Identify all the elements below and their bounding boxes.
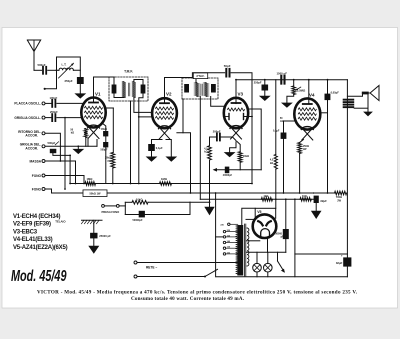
diode plate right V3 (243, 114, 245, 120)
tube V2 grids (156, 107, 174, 110)
wire speaker to ground (367, 94, 369, 111)
svg-text:250pF: 250pF (254, 81, 262, 85)
svg-text:V1: V1 (95, 91, 101, 96)
wire C2 to ground (79, 84, 81, 93)
junction dots on rails (83, 183, 85, 185)
wire chain down (112, 108, 114, 153)
tube V4 cathode (301, 127, 313, 130)
resistor 150 Ohm cathode (300, 140, 304, 143)
svg-text:VICTOR - Mod. 45/49 - Media fr: VICTOR - Mod. 45/49 - Media frequenza a … (37, 290, 358, 296)
IFT2 primary coil (195, 83, 199, 97)
tube V4 envelope (294, 98, 320, 129)
svg-text:MASSA: MASSA (29, 159, 41, 163)
terminal RITORNO DEL. ACCOR. (42, 132, 45, 135)
wire feedback tap (192, 73, 224, 78)
svg-text:V3-EBC3: V3-EBC3 (13, 229, 38, 235)
capacitor 50000pF presa (125, 214, 139, 216)
svg-text:V4-EL41(EL33): V4-EL41(EL33) (13, 237, 53, 243)
svg-text:kΩ: kΩ (71, 132, 74, 135)
V5 filament arch (261, 229, 270, 238)
wire presa to network (119, 205, 125, 207)
svg-text:V5-AZ41(EZ2A)(6X5): V5-AZ41(EZ2A)(6X5) (13, 245, 68, 251)
svg-text:250pF: 250pF (65, 79, 73, 83)
wire T1 to C3 (45, 102, 51, 104)
svg-text:FONO: FONO (32, 174, 42, 178)
lamp stems (256, 252, 258, 263)
diode plate left V3 (228, 114, 230, 120)
svg-text:Consumo totale 40 watt. Corren: Consumo totale 40 watt. Corrente totale … (131, 296, 245, 302)
svg-text:10kΩ: 10kΩ (243, 155, 249, 158)
svg-text:1MΩ: 1MΩ (161, 177, 168, 181)
svg-text:25000 pF: 25000 pF (99, 234, 111, 238)
svg-text:TELAIO: TELAIO (55, 219, 66, 223)
wire network to ground arrow (190, 201, 210, 203)
terminal GRIGLIA OSCILL. (42, 116, 45, 119)
wire V2 cathode to ground (166, 140, 171, 157)
wire oscillator return vertical (64, 118, 66, 189)
rectifier V5 envelope (253, 214, 277, 238)
svg-text:250pF: 250pF (50, 110, 58, 114)
wire choke bottom to ground (354, 107, 368, 109)
svg-text:20000pF: 20000pF (223, 175, 233, 177)
wire T6 to AVC rail (45, 176, 84, 184)
tube V3 anode bar (232, 102, 241, 104)
wire T3 down to massa row (45, 133, 60, 161)
wire antenna to C1 (34, 69, 42, 71)
svg-text:Mod. 45/49: Mod. 45/49 (11, 268, 67, 285)
IFT2 capacitor primary (184, 84, 189, 93)
capacitor 200pF diode filter (210, 136, 216, 138)
svg-text:1500 pF: 1500 pF (277, 71, 288, 75)
tube V4 anode bar (303, 103, 312, 105)
svg-text:FONO: FONO (32, 187, 42, 191)
wire junction to aerial terminal (46, 70, 57, 89)
capacitor 50pF feedback (225, 69, 227, 77)
wire IFT1 primary down (130, 101, 132, 184)
wire IFT2 secondary to V3 (211, 97, 225, 107)
mains voltage tap 230 (228, 223, 230, 225)
wire heater to V5 left (246, 218, 253, 220)
antenna (27, 40, 40, 52)
wire IFT1 secondary to V2 grid (134, 98, 152, 113)
svg-text:PRESA FONO: PRESA FONO (102, 210, 120, 214)
wire diode load wiper row (216, 169, 261, 171)
capacitor 500pF padding (50, 149, 57, 153)
svg-text:50000pF: 50000pF (133, 219, 143, 222)
svg-text:0,5MΩ: 0,5MΩ (297, 88, 306, 92)
V5 anode left (258, 221, 263, 225)
svg-text:500pF: 500pF (48, 141, 56, 145)
terminal RETE A (134, 261, 137, 264)
svg-text:GRIGLIA OSCILL.: GRIGLIA OSCILL. (14, 116, 41, 120)
terminal GRIGLIA DEL. ACCOR. (42, 145, 45, 148)
terminal MASSA (42, 160, 45, 163)
wire heater drop arrow (277, 252, 279, 261)
svg-text:ACCOR.: ACCOR. (25, 146, 38, 150)
wire B plus vertical through choke (346, 80, 348, 277)
wire AF row / B plus line (236, 79, 347, 81)
capacitor 20000pF AF coupling (225, 167, 230, 174)
power transformer winding primary (238, 225, 243, 276)
power transformer secondary bumps (247, 228, 249, 266)
wire B+ rail (200, 198, 314, 200)
capacitor cathode bypass (152, 140, 163, 145)
volume potentiometer 0.5M (293, 79, 295, 81)
capacitor 500pF antenna series (42, 67, 44, 74)
wire V1 grid2 to chain (106, 107, 114, 109)
svg-text:V2-EF9 (EF39): V2-EF9 (EF39) (13, 222, 51, 228)
wire T7 to return rail (45, 189, 70, 193)
svg-text:1W: 1W (303, 147, 307, 151)
dial lamp 2 (264, 263, 273, 272)
capacitor 100pF (51, 100, 53, 107)
wire lower B rail (295, 253, 348, 255)
wire 20k to rail (112, 168, 114, 184)
terminal presa fono B (116, 205, 119, 208)
wire bottom rail (216, 276, 347, 278)
wire V4 grid return (284, 120, 295, 122)
capacitor 250pF tone (264, 80, 266, 85)
capacitor 250pF to ground (77, 77, 84, 84)
wire V2 down to rail2 (183, 133, 191, 193)
wire anode line down to rail2 (327, 113, 329, 193)
wire C5 down to junction row (53, 153, 70, 155)
svg-text:500pF: 500pF (101, 149, 108, 152)
IFT1 capacitor secondary (141, 85, 146, 94)
wire to speaker (347, 94, 362, 96)
IFT2 secondary coil (204, 83, 208, 97)
svg-text:2°M.F.: 2°M.F. (196, 74, 204, 78)
wire presa fono link (104, 205, 116, 207)
capacitor 30000pF heater (285, 199, 287, 229)
terminal RETE B (134, 275, 137, 278)
svg-text:V5: V5 (257, 210, 261, 214)
wire ground stem (77, 146, 79, 149)
resistor 50k 1W boxed (83, 190, 107, 197)
wire C3 to V1 grid (57, 102, 84, 104)
wire cathode to rail2 (299, 154, 301, 194)
svg-text:32μF: 32μF (320, 199, 327, 203)
wire V3 cathode to ground (230, 142, 236, 152)
svg-text:V4: V4 (309, 93, 315, 98)
node aerial terminal (44, 88, 46, 90)
ground speaker (363, 112, 373, 117)
tube V2 envelope (152, 98, 177, 128)
terminal FONO 2 (42, 188, 45, 191)
speaker horn (370, 86, 379, 101)
wire massa down to rail (75, 161, 77, 184)
long B wire down to rectifier (275, 80, 277, 155)
wire V5 bottom left (246, 240, 260, 242)
capacitor 32uF first electrolytic (314, 196, 319, 203)
wire V1 cathode stub (87, 139, 89, 147)
svg-text:45kΩ: 45kΩ (101, 128, 107, 131)
svg-text:50kΩ 1W: 50kΩ 1W (89, 192, 101, 196)
svg-text:+: + (341, 253, 343, 257)
IFT1 primary coil (122, 82, 126, 98)
wire V3 diode to AVC drop (244, 116, 253, 118)
IFT1 core (128, 83, 130, 96)
inductor L.T. variable (59, 68, 73, 70)
svg-text:200pF: 200pF (213, 130, 221, 134)
rectifier V5 label box (255, 208, 276, 218)
wire IFT1 secondary top (134, 80, 143, 85)
tube V1 grids (85, 106, 103, 109)
svg-text:50pF: 50pF (224, 64, 231, 68)
svg-text:L.T.: L.T. (62, 63, 67, 67)
node 250pF junction (264, 79, 266, 81)
wire L.T. to C2 (73, 70, 80, 77)
svg-text:2W: 2W (337, 199, 341, 202)
tube V2 cathode (159, 126, 171, 129)
wire V3 anode up to AF row (235, 80, 237, 104)
tube V3 cathode (230, 126, 242, 129)
wire RETE switch side (137, 276, 205, 278)
mains voltage taps (223, 230, 225, 232)
wire AVC rail (70, 183, 251, 185)
tube V4 grids (298, 108, 316, 111)
svg-text:V1-ECH4 (ECH34): V1-ECH4 (ECH34) (13, 214, 61, 220)
wire C1 to junction (48, 69, 59, 71)
wire T5 massa row (45, 160, 76, 162)
svg-text:V2: V2 (166, 91, 172, 96)
wire IFT1 return down to rail (138, 117, 140, 184)
tube V1 cathode (88, 125, 100, 128)
wire T4 row to V1 cathode (45, 145, 97, 147)
ground potentiometer (281, 103, 293, 108)
IFT1 capacitor primary (112, 85, 117, 94)
wire mid vertical (294, 199, 296, 276)
svg-text:500pF: 500pF (38, 63, 46, 67)
resistor 700 Ohm 2W (335, 191, 347, 195)
wire V3 diode 2 to wiper (248, 109, 261, 170)
wire left drop power box (215, 193, 217, 277)
tube V2 anode bar (160, 102, 169, 104)
svg-text:kΩ: kΩ (270, 162, 273, 165)
wire IFT1 primary feed (113, 77, 115, 85)
ground V3 cathode (224, 152, 236, 157)
tube V1 envelope (81, 98, 105, 128)
wire pot to ground (287, 95, 294, 103)
capacitor grid block (283, 121, 285, 133)
power transformer core (243, 224, 245, 276)
svg-text:T.M.F.: T.M.F. (124, 69, 133, 73)
svg-text:150Ω: 150Ω (303, 144, 309, 148)
ground arrow AF (204, 207, 214, 216)
ground V1 cathode (72, 149, 84, 154)
wire HT to V5 box (242, 208, 255, 225)
node antenna junction (56, 69, 58, 71)
terminal FONO 1 (42, 174, 45, 177)
wire antenna down-lead (33, 52, 35, 71)
wire IFT1 return to V2 (139, 94, 153, 117)
capacitor 500pF screen (103, 142, 108, 147)
wire IFT2 AVC long drop (199, 97, 201, 200)
capacitor 32uF second electrolytic (343, 257, 351, 266)
svg-text:32μF: 32μF (336, 261, 343, 265)
svg-text:0,05μF: 0,05μF (331, 90, 340, 94)
ground antenna (74, 93, 86, 98)
svg-text:100pF: 100pF (50, 96, 58, 100)
tube V1 anode bar (89, 102, 98, 104)
capacitor tone 0,05uF (327, 80, 329, 94)
wire IFT1 cap bottom (114, 94, 124, 98)
svg-text:ACCOR.: ACCOR. (25, 134, 38, 138)
V5 anode right (266, 221, 271, 225)
IF transformer T.M.F. box (109, 77, 148, 101)
capacitor 1500pF coupling (280, 76, 282, 84)
wire V1 anode to IFT1 (94, 77, 115, 103)
IFT2 capacitor secondary (211, 84, 216, 93)
svg-text:V3: V3 (238, 92, 244, 97)
svg-text:PLACCA OSCILL.: PLACCA OSCILL. (14, 102, 41, 106)
wire RETE to transformer (137, 262, 238, 264)
speaker coil bar (362, 92, 369, 95)
svg-text:0,1μF: 0,1μF (273, 130, 280, 133)
IFT1 secondary coil (132, 82, 136, 98)
switch mains (205, 269, 218, 276)
wire V5 to heater bus (267, 238, 269, 252)
wire trimmer bypass loop (57, 57, 81, 70)
IFT2 core (200, 84, 202, 96)
wire V4 anode to tone cap (320, 112, 327, 114)
svg-text:+: + (313, 192, 315, 196)
wire 50pF to AVC drop (231, 73, 252, 184)
svg-text:0,1μF: 0,1μF (156, 146, 163, 150)
ground bypass (146, 157, 158, 162)
wire C4 to V1 grid (57, 117, 82, 119)
tube V3 envelope (224, 98, 248, 128)
wire tap to left drop (216, 236, 224, 238)
wire junction down to AVC rail (69, 155, 71, 183)
wire heater bus (246, 251, 286, 253)
terminal presa fono A (102, 205, 105, 208)
network loop (124, 202, 126, 214)
tube V3 grids (228, 108, 245, 111)
ground chassis arrow (93, 238, 95, 245)
wire return rail (60, 192, 335, 194)
ground V2 cathode (165, 157, 177, 162)
wire 45k down to presa fono (209, 160, 211, 207)
capacitor 250pF grid (51, 114, 53, 121)
resistor 10k bias (237, 142, 240, 152)
wire row to V4 grid cap (308, 80, 310, 104)
wire T2 to C4 (45, 117, 51, 119)
wire V2 shield return (177, 99, 183, 133)
resistor 45k diode load (209, 137, 211, 146)
capacitor 25000pF chassis (93, 220, 95, 233)
IF transformer 2 M.F. box (182, 78, 218, 99)
ground first electrolytic (315, 203, 317, 211)
output transformer winding bars (343, 99, 355, 101)
dial lamp 1 (253, 263, 262, 272)
wire V2 anode to IFT2 (165, 78, 197, 104)
wire grid cap to rail2 (283, 139, 285, 193)
svg-text:RETE ~: RETE ~ (146, 266, 157, 270)
IFT2 label box (193, 73, 207, 79)
ground tone cap (259, 96, 271, 101)
wire screen chain (102, 123, 106, 184)
terminal PLACCA OSCILL. (42, 102, 45, 105)
